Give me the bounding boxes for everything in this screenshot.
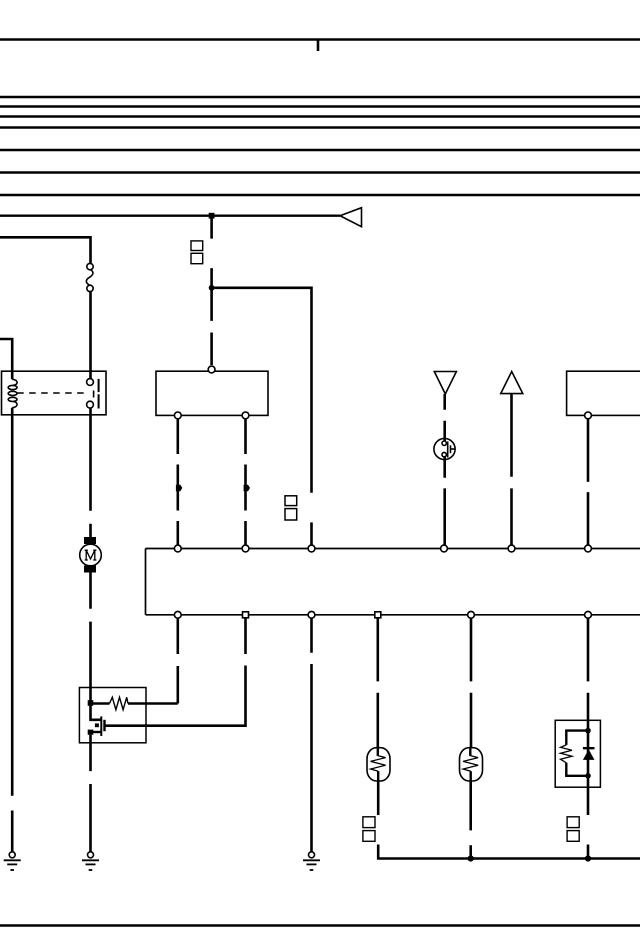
relay R1 contact bar (98, 379, 100, 409)
wire: diode box down (587, 787, 590, 815)
ground G1 (4, 852, 21, 870)
relay R1 box (2, 371, 107, 415)
wire: through diode module (587, 720, 590, 787)
junction: resistor tap (88, 700, 94, 706)
ground G2 (82, 852, 99, 870)
wire: diode box to ground bus (587, 845, 590, 859)
junction: diode on ground bus (585, 855, 591, 861)
current arrow on right wire (244, 485, 250, 492)
connector C4 (567, 817, 579, 828)
junction box J/B (146, 549, 640, 615)
ground G3 (303, 852, 320, 870)
sensor module box (79, 688, 146, 743)
connector C3 (363, 817, 375, 828)
wire: branch to relay block (212, 288, 312, 545)
resistor R2 (91, 702, 110, 704)
connector C1 (191, 241, 203, 251)
wire: down arrow to noise filter (443, 394, 446, 442)
noise filter N1 (434, 438, 455, 459)
switch box (center) (156, 371, 268, 415)
wire: resistor up to junction box (177, 618, 180, 704)
wire: bulb 1 to ground bus (378, 845, 640, 859)
transistor Q1 gate feed (91, 704, 102, 720)
wire: bulb 1 down (377, 781, 380, 815)
arrow symbol from harness (up) (501, 372, 523, 394)
connector C2 (285, 496, 297, 506)
control module box (right) (567, 371, 640, 415)
relay R1 internal dashed link (17, 392, 88, 394)
connector C4 (second cavity) (567, 831, 579, 842)
wire: J/B to diode box (587, 618, 590, 720)
junction node A (209, 285, 215, 291)
resistor R3 branch (566, 731, 588, 776)
wire: relay contact down to motor (89, 408, 92, 537)
junction: bulb 2 on ground bus (468, 855, 474, 861)
wire: bottom harness line (0, 924, 640, 927)
J/B terminal bottom 5 (468, 611, 475, 618)
wire: harness line 3 (0, 105, 640, 107)
wire: fuse to relay (89, 292, 92, 379)
J/B terminal top 4 (441, 545, 448, 552)
J/B terminal top 6 (585, 545, 592, 552)
wire: relay coil to ground (dashed run) (11, 408, 14, 852)
wire: noise filter to junction box (443, 457, 446, 546)
wire: J/B to bulb 2 (470, 618, 473, 748)
wire: up arrow to junction box (510, 394, 513, 546)
bulb L1 (367, 748, 390, 781)
wire: switch to junction box (right) (244, 419, 247, 545)
wire: motor to sensor box (89, 573, 92, 702)
wire: J/B to ground (center) (310, 618, 313, 852)
J/B terminal top 2 (242, 545, 249, 552)
motor M1 (80, 537, 102, 573)
wire: harness line 7 (0, 171, 640, 173)
wire: harness line 8 (0, 194, 640, 196)
arrow symbol from harness (down) (434, 372, 456, 395)
relay R1 terminal (bottom) (87, 401, 94, 408)
wire: fuse feed from left (0, 237, 91, 263)
wire: top harness line 1 (0, 38, 640, 41)
transistor Q1 channel bar (103, 720, 105, 731)
arrow symbol (to other page) (340, 208, 362, 227)
junction node on feed line (209, 213, 215, 219)
wire: sensor box to ground (89, 735, 92, 852)
diode module box (555, 720, 600, 787)
wire: harness line 5 (0, 126, 640, 128)
node tick on top harness line (317, 40, 320, 52)
switch box terminal (top) (208, 366, 215, 373)
bulb L2 (460, 748, 483, 781)
wire: feed line to arrow (0, 214, 340, 216)
relay R1 armature cross tick (93, 391, 95, 398)
J/B terminal bottom 2 (243, 612, 249, 618)
resistor R3 element (561, 745, 573, 763)
transistor Q1 source junction (88, 730, 94, 735)
transistor Q1 gate bar (100, 716, 102, 736)
wire: harness line 4 (0, 115, 640, 117)
relay R1 coil (8, 379, 17, 407)
wire: harness line 6 (0, 149, 640, 151)
diode D1 (583, 748, 595, 760)
J/B terminal top 5 (508, 545, 515, 552)
J/B terminal bottom 3 (308, 611, 315, 618)
connector C2 (second cavity) (285, 509, 297, 520)
relay R1 terminal (top) (87, 379, 94, 386)
wire: feed down to switch box (210, 216, 213, 365)
wire: module to junction box (587, 419, 590, 545)
wire: bulb 2 to ground bus (469, 781, 472, 859)
connector C3 (second cavity) (363, 831, 375, 842)
wire: switch to junction box (left) (177, 419, 180, 545)
wire: harness line 2 (0, 96, 640, 98)
wire: J/B to bulb 1 (376, 618, 379, 748)
current arrow on left wire (176, 485, 182, 492)
junction node (diode bottom) (585, 773, 591, 779)
J/B terminal bottom 6 (585, 611, 592, 618)
connector C1 (second cavity) (191, 253, 203, 263)
fuse F1 (86, 263, 93, 291)
J/B terminal top 3 (308, 545, 315, 552)
transistor Q1 drain dot (95, 723, 99, 727)
J/B terminal bottom 1 (174, 611, 181, 618)
wire: drain line to junction box (105, 618, 246, 726)
junction node (diode top) (585, 728, 591, 734)
control module terminal (585, 412, 592, 419)
switch box terminal (bottom left) (174, 412, 181, 419)
J/B terminal bottom 4 (375, 612, 381, 618)
J/B terminal top 1 (174, 545, 181, 552)
transistor Q1 source link (91, 731, 101, 733)
wire: stub to relay coil (0, 339, 12, 379)
switch box terminal (bottom right) (242, 412, 249, 419)
